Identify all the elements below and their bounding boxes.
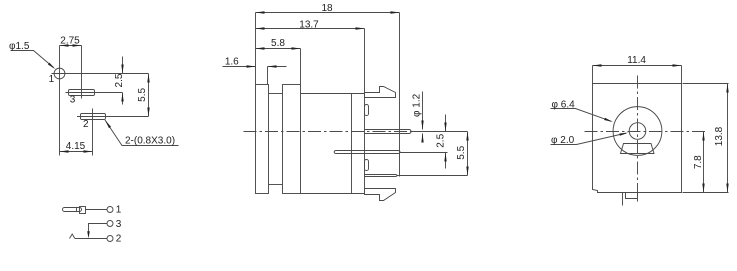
dimension 13.7 bbox=[256, 28, 365, 30]
dimension 2.75 bbox=[60, 45, 82, 47]
pin 3 centerline bbox=[66, 92, 123, 94]
dimension 5.5 middle view bbox=[467, 132, 469, 176]
rear body right edge bbox=[364, 94, 366, 194]
svg-text:2: 2 bbox=[83, 119, 89, 130]
dimension 4.15 bbox=[60, 151, 93, 153]
neck top edge bbox=[269, 93, 283, 95]
svg-text:11.4: 11.4 bbox=[627, 55, 646, 66]
axis centerline middle view bbox=[244, 131, 428, 133]
internal body partition line bbox=[351, 94, 353, 194]
svg-text:13.7: 13.7 bbox=[299, 19, 319, 30]
horizontal centerline right view bbox=[585, 131, 706, 133]
svg-text:1: 1 bbox=[49, 74, 55, 85]
dimension 2.5 middle view bbox=[445, 115, 447, 132]
bottom pin centerline extension bbox=[397, 175, 468, 177]
barrel opening circle bbox=[613, 107, 662, 156]
dimension phi1.2 center pin diameter bbox=[422, 92, 424, 130]
leader phi1.5 for pin 1 bbox=[11, 51, 54, 68]
wire terminal 3 with contact arrow bbox=[89, 224, 108, 237]
svg-text:18: 18 bbox=[321, 3, 333, 14]
switch contact caret bbox=[70, 234, 75, 239]
svg-text:2.5: 2.5 bbox=[114, 73, 125, 87]
terminal 1 circle bbox=[107, 207, 113, 213]
dimension 7.8 bbox=[703, 132, 705, 193]
pin 1 circle (contact pin side view) bbox=[54, 68, 65, 79]
bottom mounting tab bbox=[626, 193, 638, 199]
svg-text:φ 6.4: φ 6.4 bbox=[552, 99, 576, 110]
svg-text:φ 2.0: φ 2.0 bbox=[551, 135, 575, 146]
pin 3 vertical centerline bbox=[81, 46, 83, 99]
body side bump upper bbox=[365, 105, 369, 116]
svg-text:4.15: 4.15 bbox=[66, 141, 86, 152]
flange plate bbox=[256, 85, 269, 194]
terminal 3 circle bbox=[107, 221, 113, 227]
vertical centerline right view bbox=[637, 76, 639, 204]
leader phi6.4 barrel diameter bbox=[551, 109, 612, 122]
side terminal pin line bbox=[622, 193, 624, 206]
rear body top edge bbox=[301, 93, 365, 95]
leader phi2.0 pin hole diameter bbox=[551, 133, 627, 144]
pin 2 vertical centerline bbox=[92, 109, 94, 156]
extension top right bbox=[683, 83, 729, 85]
dimension 5.5 left view bbox=[148, 74, 150, 117]
top snap hook bbox=[365, 87, 396, 98]
neck bottom edge bbox=[269, 184, 283, 186]
middle pin centerline extension bbox=[400, 152, 448, 154]
svg-text:5.8: 5.8 bbox=[271, 38, 285, 49]
svg-text:φ 1.2: φ 1.2 bbox=[412, 93, 423, 117]
pin 2 centerline bbox=[77, 116, 149, 118]
dimension 13.8 overall height bbox=[727, 84, 729, 193]
svg-text:2.75: 2.75 bbox=[60, 36, 80, 47]
dimension 18 overall length bbox=[256, 12, 400, 14]
pin 3 slot bbox=[69, 90, 95, 96]
svg-text:5.5: 5.5 bbox=[137, 88, 148, 102]
svg-text:1.6: 1.6 bbox=[225, 57, 239, 68]
svg-text:3: 3 bbox=[70, 95, 76, 106]
center pin bbox=[365, 130, 412, 134]
dimension 1.6 flange thickness bbox=[223, 66, 256, 68]
center pin centerline extension bbox=[411, 131, 468, 133]
svg-text:3: 3 bbox=[116, 219, 122, 230]
rear body bottom edge bbox=[301, 193, 365, 195]
schematic plug barrel bbox=[63, 208, 82, 212]
bottom snap hook bbox=[365, 189, 396, 201]
svg-text:13.8: 13.8 bbox=[714, 126, 725, 146]
center pin hole circle bbox=[629, 123, 646, 140]
extension line 18 right bbox=[399, 13, 401, 177]
svg-text:5.5: 5.5 bbox=[456, 145, 467, 159]
mounting band bbox=[283, 85, 301, 194]
extension line 1.6 step bbox=[267, 67, 269, 85]
extension line 5.8 right bbox=[300, 49, 302, 85]
dimension 2.5 left view bbox=[122, 57, 124, 74]
wire to terminal 1 bbox=[86, 209, 108, 211]
body side bump lower bbox=[365, 160, 369, 171]
schematic plug tip divider bbox=[76, 208, 78, 212]
svg-text:2-(0.8X3.0): 2-(0.8X3.0) bbox=[125, 136, 175, 147]
svg-text:2.5: 2.5 bbox=[435, 133, 446, 147]
pin 1 vertical centerline bbox=[59, 46, 61, 156]
pin 2 slot bbox=[81, 114, 106, 120]
front face outline bbox=[593, 84, 682, 193]
svg-text:1: 1 bbox=[116, 205, 122, 216]
dimension 5.8 bbox=[256, 48, 301, 50]
extension line flange left bbox=[255, 13, 257, 85]
dimension 11.4 bbox=[593, 65, 682, 67]
extension line 13.7 right bbox=[364, 29, 366, 94]
svg-text:2: 2 bbox=[116, 234, 122, 245]
leader 2-(0.8X3.0) pin size note bbox=[105, 120, 179, 146]
terminal 2 circle bbox=[107, 236, 113, 242]
svg-text:φ1.5: φ1.5 bbox=[9, 41, 30, 52]
svg-text:7.8: 7.8 bbox=[693, 155, 704, 169]
pin 1 horizontal centerline bbox=[52, 73, 149, 75]
bottom pin bbox=[365, 175, 398, 177]
wire terminal 2 bbox=[75, 238, 107, 240]
inner shelf bbox=[621, 144, 655, 154]
middle pin bbox=[334, 151, 400, 154]
extension bottom right bbox=[683, 192, 729, 194]
schematic plug collar bbox=[80, 207, 86, 214]
